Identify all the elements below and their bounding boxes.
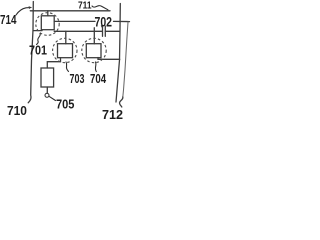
svg-text:704: 704 [90, 73, 107, 87]
svg-text:710: 710 [7, 104, 27, 119]
svg-text:702: 702 [95, 14, 113, 30]
svg-text:703: 703 [70, 73, 85, 87]
svg-text:711: 711 [78, 0, 92, 11]
svg-text:701: 701 [29, 43, 47, 58]
svg-text:705: 705 [56, 97, 75, 112]
svg-text:714: 714 [0, 14, 17, 28]
svg-text:712: 712 [102, 107, 123, 120]
